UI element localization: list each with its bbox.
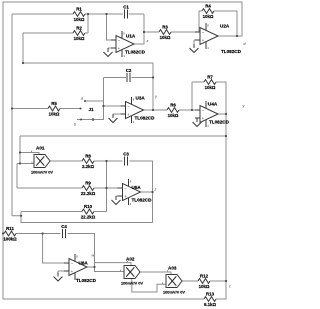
- resistor R8: [82, 154, 95, 169]
- resistor R10: [81, 204, 96, 219]
- svg-text:y: y: [154, 95, 157, 99]
- svg-text:R11: R11: [6, 226, 14, 231]
- junction R5 tap: [11, 107, 13, 109]
- svg-text:10kΩ: 10kΩ: [168, 113, 179, 118]
- wire: R1/R2 rows and junction: [12, 14, 123, 33]
- wire: R2-left to U3A output net y: [23, 33, 153, 110]
- wire: R9 row to U5A minus: [17, 187, 118, 189]
- junction C4/U6A minus: [42, 232, 44, 234]
- svg-text:8: 8: [133, 97, 135, 101]
- wire: net c right vertical + R13/R7 leads: [216, 82, 226, 299]
- wire: U3A minus stub: [104, 105, 121, 107]
- svg-text:z: z: [154, 188, 157, 192]
- wire: U5A summing vertical, R10 row: [21, 161, 107, 212]
- junction R11/outer: [2, 232, 4, 234]
- svg-text:c: c: [229, 285, 231, 289]
- svg-text:R4: R4: [205, 4, 211, 9]
- svg-text:A03: A03: [168, 266, 177, 271]
- svg-text:R10: R10: [84, 204, 93, 209]
- svg-text:R9: R9: [85, 181, 91, 186]
- junction R7/R6: [191, 109, 193, 111]
- svg-text:+: +: [202, 116, 205, 121]
- svg-text:8: 8: [130, 179, 132, 183]
- svg-text:U2A: U2A: [220, 24, 230, 29]
- svg-text:J1: J1: [89, 107, 95, 112]
- svg-text:R5: R5: [51, 101, 57, 106]
- multiplier A03: [163, 266, 185, 295]
- junction R12/net c: [225, 280, 227, 282]
- wire: U6A minus from C4 node: [43, 234, 64, 264]
- svg-text:R7: R7: [207, 75, 213, 80]
- svg-text:TL082CD: TL082CD: [135, 116, 156, 121]
- wire: A02 out to A03 in1: [140, 270, 171, 274]
- junction net c feedback: [225, 135, 227, 137]
- wire: A02 bottom to A03 in2: [132, 279, 166, 293]
- junction U4A out: [225, 113, 227, 115]
- svg-text:TL082CD: TL082CD: [76, 278, 97, 283]
- junction A01 in2 tap: [19, 162, 21, 164]
- svg-text:10kΩ: 10kΩ: [74, 17, 85, 22]
- svg-text:8: 8: [207, 23, 209, 27]
- svg-text:10kΩ: 10kΩ: [74, 36, 85, 41]
- junction R9 summing: [105, 187, 107, 189]
- svg-text:A01: A01: [36, 146, 45, 151]
- junction U6A out: [93, 266, 95, 268]
- op-amp U4A: [195, 101, 230, 128]
- svg-text:8: 8: [123, 31, 125, 35]
- multiplier A02: [121, 257, 143, 286]
- svg-text:R1: R1: [76, 7, 82, 12]
- svg-text:10kΩ: 10kΩ: [160, 35, 171, 40]
- svg-text:R13: R13: [206, 292, 215, 297]
- capacitor C3: [123, 151, 129, 165]
- op-amp U5A: [118, 179, 153, 206]
- resistor R12: [198, 274, 210, 289]
- junction A01 in1 tap: [19, 151, 21, 153]
- junction U3A minus tap: [102, 105, 104, 107]
- op-amp U3A: [121, 96, 156, 124]
- svg-text:R8: R8: [85, 154, 91, 159]
- junction R2 feedback: [22, 62, 24, 64]
- capacitor C2: [126, 68, 132, 82]
- junction R3 tap: [143, 31, 145, 33]
- svg-text:TL082CD: TL082CD: [132, 198, 153, 203]
- multiplier A01: [31, 146, 53, 175]
- svg-text:4: 4: [207, 46, 209, 50]
- svg-text:−: −: [202, 30, 205, 35]
- svg-text:100mV/V 0V: 100mV/V 0V: [163, 290, 185, 295]
- svg-text:U3A: U3A: [136, 96, 146, 101]
- svg-text:−: −: [127, 104, 130, 109]
- svg-text:C2: C2: [126, 68, 132, 73]
- wire: net d outer loop (U2A out, top, left, bottom): [3, 2, 242, 299]
- svg-text:−: −: [71, 261, 74, 266]
- svg-text:C4: C4: [61, 224, 67, 229]
- junction C1/summing: [105, 13, 107, 15]
- wire: C2 leads: [104, 77, 154, 79]
- svg-text:R3: R3: [162, 25, 168, 30]
- svg-text:22.2kΩ: 22.2kΩ: [81, 214, 96, 219]
- wire: U3A out to R6, R7 feedback: [144, 82, 205, 110]
- wire: R4 feedback leads: [199, 11, 237, 36]
- svg-text:TL082CD: TL082CD: [221, 49, 242, 54]
- svg-text:U1A: U1A: [126, 34, 136, 39]
- svg-text:10kΩ: 10kΩ: [203, 14, 214, 19]
- ground U6A: [54, 273, 63, 282]
- resistor R13: [204, 292, 217, 307]
- svg-text:b: b: [74, 123, 76, 127]
- svg-text:10kΩ: 10kΩ: [49, 111, 60, 116]
- wire: A03 out, R12 row to net c: [182, 280, 226, 282]
- capacitor C1: [123, 4, 129, 18]
- wire: A01 in2 to R9 row: [17, 162, 34, 188]
- svg-text:R2: R2: [76, 26, 82, 31]
- resistor R11: [3, 226, 17, 241]
- wire: U1A output node x, C1 right, R3 row: [129, 14, 195, 44]
- svg-text:100mV/V 0V: 100mV/V 0V: [121, 281, 143, 286]
- resistor R2: [73, 26, 85, 41]
- svg-text:+: +: [71, 269, 74, 274]
- wire: R8 row, C3 feedback: [50, 161, 153, 223]
- svg-text:−: −: [202, 108, 205, 113]
- junction U3A out: [152, 109, 154, 111]
- wire: U3A summing vertical to J1 a/b throws: [77, 78, 104, 120]
- junction R4/U2A out: [236, 35, 238, 37]
- svg-text:10kΩ: 10kΩ: [199, 284, 210, 289]
- ground U3A: [109, 114, 118, 123]
- resistor R1: [73, 7, 85, 22]
- svg-text:a: a: [81, 97, 83, 101]
- svg-text:+: +: [118, 46, 121, 51]
- op-amp U2A: [195, 23, 242, 54]
- resistor R5: [48, 101, 60, 116]
- wire: net c long feedback to A01 in1: [20, 136, 226, 164]
- svg-text:U6A: U6A: [79, 261, 89, 266]
- wire: R11 row, C4 to U6A out: [3, 234, 95, 266]
- resistor R9: [81, 181, 96, 196]
- ground U2A: [190, 44, 199, 53]
- svg-text:−: −: [118, 38, 121, 43]
- svg-text:R12: R12: [200, 274, 209, 279]
- wire: U1A summing node vertical: [107, 14, 112, 40]
- junction R1/R2: [87, 13, 89, 15]
- svg-text:y: y: [242, 104, 245, 108]
- svg-text:C1: C1: [123, 4, 129, 9]
- svg-text:9.1kΩ: 9.1kΩ: [204, 302, 217, 307]
- svg-text:+: +: [202, 38, 205, 43]
- svg-text:C3: C3: [123, 151, 129, 156]
- svg-text:w: w: [92, 254, 95, 258]
- svg-text:U4A: U4A: [208, 102, 218, 107]
- junction U5A out: [151, 191, 153, 193]
- capacitor C4: [61, 224, 67, 238]
- op-amp U6A: [64, 254, 97, 283]
- resistor R7: [204, 75, 216, 90]
- svg-text:−: −: [124, 186, 127, 191]
- svg-text:+: +: [124, 194, 127, 199]
- op-amp U1A: [111, 31, 146, 58]
- svg-text:100mV/V 0V: 100mV/V 0V: [31, 170, 53, 175]
- junction C2 right: [152, 76, 154, 78]
- svg-text:TL082CD: TL082CD: [209, 120, 230, 125]
- wire: U6A out to A02 inputs: [87, 261, 131, 272]
- ground U1A: [104, 48, 113, 57]
- svg-text:d: d: [244, 42, 247, 46]
- svg-text:10kΩ: 10kΩ: [205, 85, 216, 90]
- ground U5A: [112, 196, 121, 205]
- resistor R6: [167, 103, 179, 118]
- svg-text:x: x: [146, 39, 149, 43]
- svg-text:R6: R6: [170, 103, 176, 108]
- svg-text:8: 8: [76, 254, 78, 258]
- svg-text:22.2kΩ: 22.2kΩ: [81, 191, 96, 196]
- ground U4A: [193, 118, 202, 127]
- svg-text:A02: A02: [126, 257, 135, 262]
- svg-text:+: +: [127, 112, 130, 117]
- svg-text:100kΩ: 100kΩ: [3, 236, 17, 241]
- wire: left feedback v1 + R5 row to J1: [12, 14, 80, 216]
- svg-text:TL082CD: TL082CD: [125, 50, 146, 55]
- resistor R4: [202, 4, 214, 19]
- wire: U5A output loop to R10: [21, 192, 153, 223]
- resistor R3: [159, 25, 171, 40]
- wire: U4A output to net c: [218, 113, 226, 115]
- switch J1: [74, 97, 94, 127]
- wire: op-amp plus input stubs to grounds: [58, 40, 197, 273]
- svg-text:U5A: U5A: [132, 185, 142, 190]
- junction R8/C3: [105, 160, 107, 162]
- svg-text:2.2kΩ: 2.2kΩ: [82, 164, 95, 169]
- junction left feedback/R10 loop: [20, 215, 22, 217]
